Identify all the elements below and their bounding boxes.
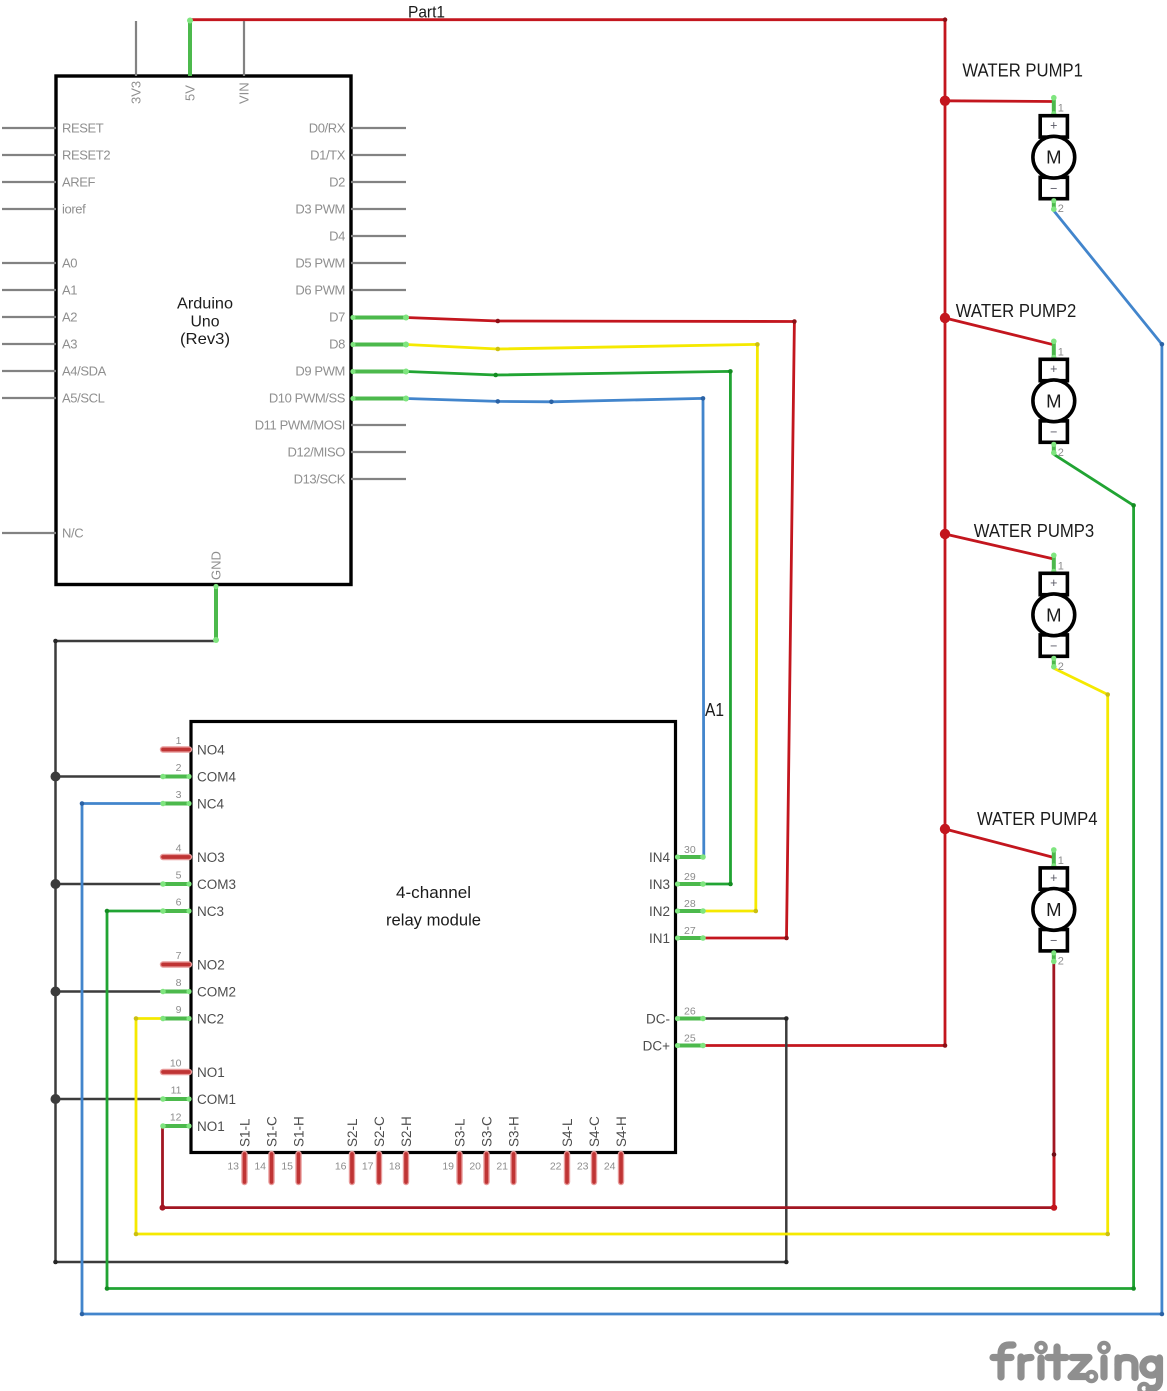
svg-text:D11 PWM/MOSI: D11 PWM/MOSI [255,418,345,433]
relay pin 2 COM4 [160,762,236,785]
svg-text:NO3: NO3 [197,850,225,865]
svg-text:29: 29 [684,871,696,883]
svg-text:S4-H: S4-H [614,1116,629,1147]
svg-text:3V3: 3V3 [129,81,144,104]
wire: GND rail to COM2 (dark) [56,990,162,993]
svg-text:19: 19 [442,1161,454,1173]
relay pin 23 S4-C [577,1116,602,1182]
svg-text:2: 2 [1058,203,1064,215]
svg-text:D2: D2 [329,175,345,190]
svg-text:20: 20 [469,1161,481,1173]
svg-text:relay module: relay module [386,911,481,930]
svg-text:VIN: VIN [237,82,252,104]
svg-text:DC+: DC+ [643,1039,670,1054]
junction on rail at pump4 [940,824,950,834]
wire: GND rail to COM1 (dark) [56,1098,162,1101]
svg-text:D4: D4 [329,229,345,244]
svg-text:S3-H: S3-H [507,1116,522,1147]
svg-text:1: 1 [176,735,182,747]
svg-text:RESET: RESET [62,121,104,136]
svg-text:M: M [1046,899,1061,920]
svg-text:+: + [1050,871,1057,885]
svg-text:S1-C: S1-C [265,1116,280,1147]
svg-text:S3-C: S3-C [480,1116,495,1147]
svg-text:S2-C: S2-C [372,1116,387,1147]
svg-text:12: 12 [170,1112,182,1124]
svg-text:S1-H: S1-H [292,1116,307,1147]
svg-text:D0/RX: D0/RX [309,121,346,136]
relay pin 13 S1-L [227,1118,252,1182]
svg-text:−: − [1050,934,1057,948]
svg-text:WATER PUMP1: WATER PUMP1 [962,60,1083,81]
svg-text:25: 25 [684,1033,696,1045]
Arduino pin D3 PWM [295,202,406,217]
wire: Arduino D7 to relay IN1 (red) [406,318,797,941]
motor M2 (WATER PUMP2) [1033,339,1075,456]
relay pin 25 DC+ [643,1033,706,1054]
svg-text:2: 2 [1058,955,1064,967]
svg-text:16: 16 [335,1161,347,1173]
svg-text:COM4: COM4 [197,770,236,785]
relay pin 6 NC3 [160,897,224,920]
svg-text:M: M [1046,390,1061,411]
svg-text:RESET2: RESET2 [62,148,110,163]
junction GND rail / COM4 [51,772,61,782]
svg-text:D9 PWM: D9 PWM [295,364,345,379]
wire: rail to WATER PUMP1 + (red) [945,99,1054,102]
relay pin 20 S3-C [469,1116,494,1182]
Arduino pin A4/SDA [2,364,107,379]
svg-text:−: − [1050,425,1057,439]
relay pin 15 S1-H [281,1116,306,1182]
svg-text:27: 27 [684,925,696,937]
junction GND rail / COM3 [51,879,61,889]
Arduino pin D10 PWM/SS [269,391,409,406]
junction GND rail / COM2 [51,987,61,997]
svg-text:NO1: NO1 [197,1065,225,1080]
svg-text:23: 23 [577,1161,589,1173]
wire: WATER PUMP2 - to relay NC3 (green) [105,454,1136,1290]
junction on rail at pump3 [940,529,950,539]
wire: WATER PUMP1 - to relay NC4 (blue) [80,211,1165,1317]
Arduino pin D5 PWM [295,256,406,271]
wire: rail to WATER PUMP4 + (red) [945,829,1054,858]
relay pin 1 NO4 [163,735,225,758]
relay pin 5 COM3 [160,870,236,893]
Arduino pin D8 [329,337,409,352]
svg-text:M: M [1046,604,1061,625]
wire: Arduino D8 to relay IN2 (yellow) [406,342,760,913]
Arduino Uno U1 title [177,296,233,349]
svg-text:24: 24 [604,1161,616,1173]
junction on rail at pump2 [940,313,950,323]
Arduino pin N/C [2,526,83,541]
Arduino pin AREF [2,175,96,190]
svg-text:AREF: AREF [62,175,96,190]
Arduino pin D9 PWM [295,364,409,379]
relay pin 18 S2-H [389,1116,414,1182]
relay pin 4 NO3 [163,843,225,866]
svg-text:A3: A3 [62,337,77,352]
svg-text:3: 3 [176,789,182,801]
wire: 5V to +V rail (red, net Part1) [190,17,947,1047]
Arduino pin A5/SCL [2,391,105,406]
svg-text:COM3: COM3 [197,877,236,892]
svg-text:GND: GND [209,551,224,580]
relay pin 21 S3-H [496,1116,521,1182]
motor M1 (WATER PUMP1) [1033,95,1075,212]
svg-text:2: 2 [1058,447,1064,459]
svg-text:22: 22 [550,1161,562,1173]
relay pin 7 NO2 [163,950,225,973]
Arduino pin D1/TX [310,148,406,163]
svg-text:A5/SCL: A5/SCL [62,391,105,406]
relay pin 29 IN3 [649,871,706,892]
Arduino pin D0/RX [309,121,406,136]
motor M4 (WATER PUMP4) [1033,847,1075,964]
svg-text:D7: D7 [329,310,345,325]
svg-text:18: 18 [389,1161,401,1173]
Arduino pin RESET2 [2,148,110,163]
Arduino pin A2 [2,310,77,325]
relay pin 9 NC2 [160,1004,224,1027]
4-channel relay module body [191,722,676,1153]
Arduino pin A3 [2,337,77,352]
svg-text:D13/SCK: D13/SCK [294,472,346,487]
svg-text:NO1: NO1 [197,1119,225,1134]
svg-text:DC-: DC- [646,1012,670,1027]
svg-text:A0: A0 [62,256,77,271]
Arduino pin RESET [2,121,104,136]
svg-text:1: 1 [1058,855,1064,867]
Arduino pin D7 [329,310,409,325]
relay pin 30 IN4 [649,844,706,865]
relay pin 8 COM2 [160,977,236,1000]
relay pin 27 IN1 [649,925,706,946]
Arduino pin D4 [329,229,406,244]
svg-text:A2: A2 [62,310,77,325]
svg-text:A1: A1 [62,283,77,298]
svg-text:(Rev3): (Rev3) [180,331,230,348]
wire: Arduino GND to relay DC- (dark) [53,639,788,1265]
svg-text:11: 11 [171,1085,182,1097]
svg-text:S3-L: S3-L [453,1118,468,1147]
Arduino pin D6 PWM [295,283,406,298]
svg-text:D1/TX: D1/TX [310,148,346,163]
svg-text:7: 7 [176,950,182,962]
svg-text:IN4: IN4 [649,850,671,865]
Arduino pin D11 PWM/MOSI [255,418,406,433]
svg-text:30: 30 [684,844,696,856]
svg-text:2: 2 [1058,661,1064,673]
wire: WATER PUMP3 - to relay NC2 (yellow) [134,668,1110,1236]
relay pin 24 S4-H [604,1116,629,1182]
relay pin 3 NC4 [160,789,224,812]
svg-text:D3 PWM: D3 PWM [295,202,345,217]
svg-text:5V: 5V [183,85,198,101]
svg-text:+: + [1050,362,1057,376]
wire: GND rail to COM4 (dark) [56,775,162,778]
svg-text:2: 2 [176,762,182,774]
svg-text:NC3: NC3 [197,904,224,919]
svg-text:8: 8 [176,977,182,989]
Arduino pin VIN [237,21,252,104]
svg-text:14: 14 [254,1161,266,1173]
svg-text:NO2: NO2 [197,958,225,973]
svg-text:IN1: IN1 [649,931,670,946]
svg-text:S1-L: S1-L [238,1118,253,1147]
wire: GND rail to COM3 (dark) [56,883,162,886]
svg-text:21: 21 [496,1161,508,1173]
relay pin 28 IN2 [649,898,706,919]
motor M3 (WATER PUMP3) [1033,553,1075,670]
svg-text:28: 28 [684,898,696,910]
relay pin 14 S1-C [254,1116,279,1182]
relay pin 19 S3-L [442,1118,467,1182]
svg-text:Part1: Part1 [408,3,445,21]
svg-text:WATER PUMP2: WATER PUMP2 [956,300,1077,321]
Arduino pin GND (connected) [209,551,224,643]
Arduino pin D2 [329,175,406,190]
svg-text:IN2: IN2 [649,904,670,919]
Arduino pin 5V (connected) [183,18,198,102]
svg-text:−: − [1050,182,1057,196]
wire: Arduino D10 to relay IN4 (blue, net A1) [406,396,705,857]
svg-text:S2-H: S2-H [399,1116,414,1147]
svg-text:ioref: ioref [62,202,86,217]
svg-text:COM1: COM1 [197,1092,236,1107]
relay pin 10 NO1 [163,1058,225,1081]
svg-text:S4-L: S4-L [560,1118,575,1147]
svg-text:D10 PWM/SS: D10 PWM/SS [269,391,346,406]
svg-text:S2-L: S2-L [345,1118,360,1147]
relay pin 16 S2-L [335,1118,360,1182]
wire: rail to WATER PUMP2 + (red) [945,318,1054,345]
Arduino pin A0 [2,256,77,271]
relay pin 17 S2-C [362,1116,387,1182]
svg-text:26: 26 [684,1006,696,1018]
svg-text:D12/MISO: D12/MISO [288,445,346,460]
fritzing logo [993,1345,1160,1389]
junction GND rail / COM1 [51,1094,61,1104]
Arduino pin D13/SCK [294,472,406,487]
svg-text:+: + [1050,119,1057,133]
svg-text:NC4: NC4 [197,797,224,812]
wire: Arduino D9 to relay IN3 (green) [406,369,733,886]
svg-text:NC2: NC2 [197,1012,224,1027]
svg-text:WATER PUMP3: WATER PUMP3 [974,520,1094,541]
svg-text:4-channel: 4-channel [396,883,471,902]
svg-text:6: 6 [176,897,182,909]
svg-text:WATER PUMP4: WATER PUMP4 [977,808,1098,829]
svg-text:NO4: NO4 [197,743,225,758]
svg-text:1: 1 [1058,560,1064,572]
svg-text:D5 PWM: D5 PWM [295,256,345,271]
svg-text:Arduino: Arduino [177,296,233,313]
svg-text:+: + [1050,576,1057,590]
Arduino pin ioref [2,202,86,217]
svg-text:IN3: IN3 [649,877,670,892]
svg-text:Uno: Uno [191,313,220,330]
svg-text:10: 10 [170,1058,182,1070]
svg-text:4: 4 [176,843,182,855]
svg-text:15: 15 [281,1161,293,1173]
svg-text:17: 17 [362,1161,374,1173]
svg-text:5: 5 [176,870,182,882]
svg-text:D8: D8 [329,337,345,352]
relay pin 22 S4-L [550,1118,575,1182]
svg-text:−: − [1050,639,1057,653]
svg-text:N/C: N/C [62,526,83,541]
svg-text:A4/SDA: A4/SDA [62,364,107,379]
svg-text:M: M [1046,147,1061,168]
relay module title [386,883,481,930]
svg-text:13: 13 [227,1161,239,1173]
svg-text:9: 9 [176,1004,182,1016]
svg-text:A1: A1 [705,700,724,720]
svg-text:1: 1 [1058,103,1064,115]
svg-text:D6 PWM: D6 PWM [295,283,345,298]
svg-text:COM2: COM2 [197,985,236,1000]
junction on rail at pump1 [940,96,950,106]
Arduino Uno U1 body [56,76,351,585]
wire: rail to WATER PUMP3 + (red) [945,534,1054,559]
Arduino pin D12/MISO [288,445,406,460]
svg-text:1: 1 [1058,346,1064,358]
relay pin 11 COM1 [160,1085,236,1108]
Arduino pin 3V3 [129,21,144,104]
relay pin 12 NO1 [160,1112,225,1135]
svg-text:S4-C: S4-C [587,1116,602,1147]
Arduino pin A1 [2,283,77,298]
relay pin 26 DC- [646,1006,706,1027]
wire: WATER PUMP4 - to relay NO1 pin12 (dark red) [160,963,1058,1211]
